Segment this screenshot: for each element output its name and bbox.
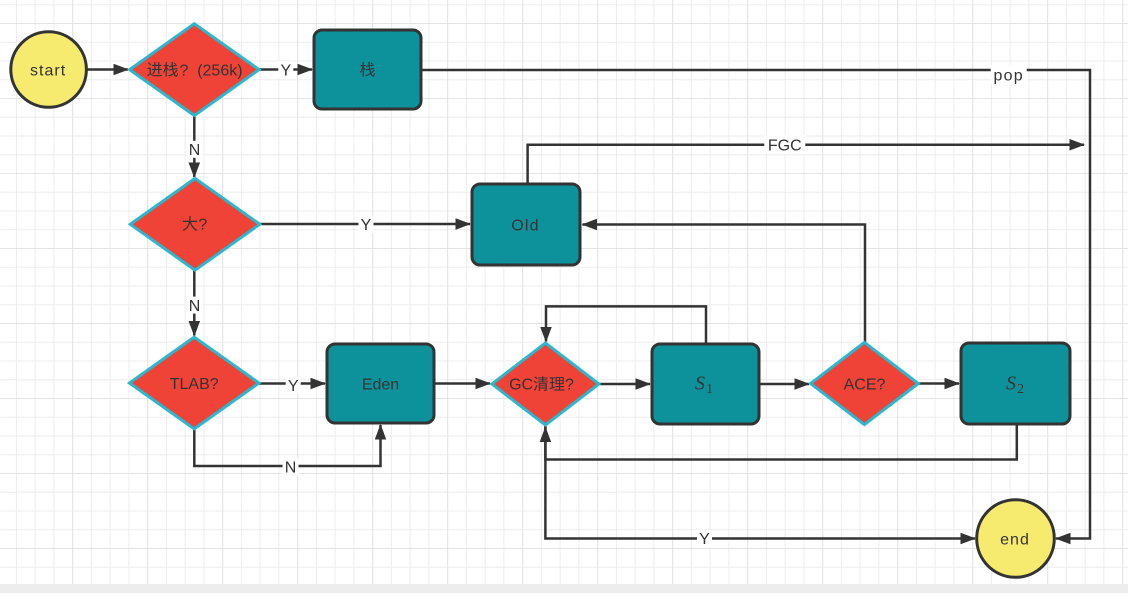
svg-text:Eden: Eden	[362, 376, 399, 393]
svg-text:Y: Y	[288, 378, 299, 395]
svg-text:N: N	[285, 460, 297, 477]
svg-text:Y: Y	[280, 62, 291, 79]
svg-text:?: ?	[198, 217, 207, 234]
svg-text:?: ?	[180, 62, 189, 79]
svg-text:2: 2	[1017, 382, 1024, 397]
svg-text:ACE?: ACE?	[844, 376, 886, 393]
svg-text:?: ?	[565, 377, 574, 394]
svg-text:Y: Y	[699, 531, 710, 548]
svg-text:(256k): (256k)	[197, 62, 242, 79]
svg-text:GC: GC	[509, 377, 533, 394]
svg-text:pop: pop	[994, 67, 1024, 84]
svg-text:Y: Y	[361, 217, 372, 234]
svg-text:start: start	[30, 62, 66, 79]
svg-text:S: S	[695, 373, 705, 395]
svg-text:FGC: FGC	[768, 138, 802, 155]
svg-text:N: N	[189, 142, 201, 159]
svg-text:1: 1	[706, 382, 713, 397]
svg-text:Old: Old	[511, 217, 540, 234]
svg-text:TLAB?: TLAB?	[170, 376, 219, 393]
svg-text:end: end	[1000, 531, 1030, 548]
svg-text:S: S	[1006, 373, 1016, 395]
svg-text:N: N	[189, 298, 201, 315]
